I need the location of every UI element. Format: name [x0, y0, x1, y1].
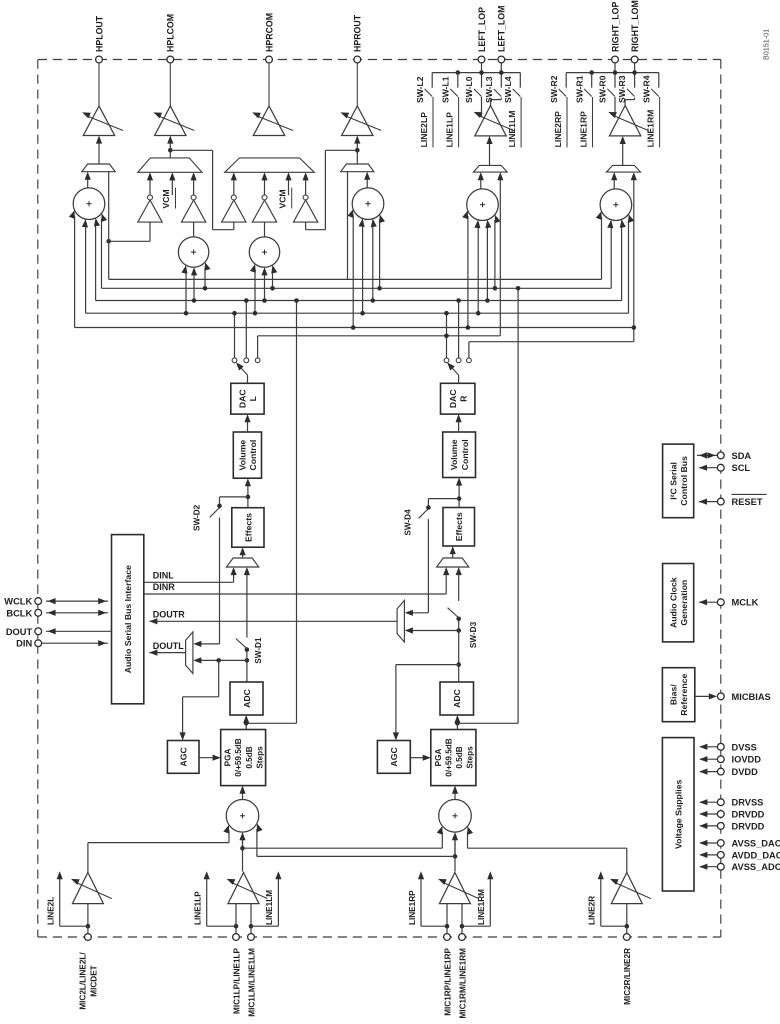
- wire HPLCOM output: [169, 63, 171, 106]
- op-amp HPLOUT driver: [83, 106, 114, 136]
- wire SW-D4 to DOUTR mux: [427, 519, 429, 613]
- switch SW-D1: [245, 647, 250, 652]
- net LINE1LM stub: [520, 97, 522, 147]
- pin DVDD: [717, 768, 724, 775]
- pin DVSS: [717, 743, 724, 750]
- wire MIC1R amp to mixer R (tap to mixer L): [454, 836, 456, 872]
- switch SW-R4: [651, 89, 659, 97]
- wire MIC1L amp to mixer L (tap to mixer R): [242, 836, 244, 872]
- net LINE1LP stub: [458, 97, 460, 147]
- selector DAC L output: [247, 375, 249, 383]
- pin LEFT_LOP: [481, 63, 483, 88]
- svg-text:DRVDD: DRVDD: [732, 810, 765, 820]
- wire Volume Control L to DAC L: [247, 419, 249, 432]
- svg-text:MCLK: MCLK: [732, 598, 759, 608]
- pin MCLK: [717, 599, 724, 606]
- block Bias/Reference: [662, 668, 694, 722]
- pin AVDD_DAC: [717, 852, 724, 859]
- wire PGA L to ADC L (tap to bus): [245, 720, 247, 729]
- svg-text:Control: Control: [248, 440, 258, 471]
- wire LEFT_LO mux bypass input (DAC_L): [499, 177, 501, 335]
- wire DAC L sel right to H6: [257, 336, 259, 358]
- pin LEFT_LOM: [500, 63, 502, 88]
- wire DOUT: [46, 630, 112, 632]
- pin SDA: [717, 452, 724, 459]
- summer HPROUT mixer: [352, 188, 384, 220]
- svg-text:DOUTR: DOUTR: [153, 610, 185, 620]
- svg-text:Reference: Reference: [679, 674, 689, 716]
- svg-text:AVSS_ADC: AVSS_ADC: [732, 862, 780, 872]
- pin RIGHT_LOM: [634, 63, 636, 88]
- svg-text:DRVSS: DRVSS: [732, 798, 764, 808]
- wire RIGHT_LO mixer inputs: [601, 217, 603, 280]
- wire BCLK: [46, 612, 108, 614]
- svg-text:SW-D1: SW-D1: [254, 637, 263, 664]
- op-amp HPLCOM driver: [155, 106, 186, 136]
- switch SW-R0: [607, 89, 615, 97]
- wire LEFT_LO mixer inputs: [494, 220, 496, 288]
- svg-text:DOUTL: DOUTL: [153, 641, 184, 651]
- svg-text:DVDD: DVDD: [732, 767, 759, 777]
- svg-text:Steps: Steps: [466, 746, 475, 769]
- pin DRVDD: [717, 811, 724, 818]
- block Audio Serial Bus Interface: [112, 535, 144, 704]
- svg-text:I²C Serial: I²C Serial: [668, 462, 678, 500]
- wire AGC L to PGA L: [199, 757, 215, 759]
- switch SW-R3: [627, 89, 635, 97]
- svg-text:MIC1LP/LINE1LP: MIC1LP/LINE1LP: [232, 947, 241, 1014]
- pin AVSS_ADC: [717, 863, 724, 870]
- svg-text:AVDD_DAC: AVDD_DAC: [732, 850, 780, 860]
- svg-text:0/+59.5dB: 0/+59.5dB: [444, 738, 453, 777]
- summer HPLCOM mixer: [178, 237, 208, 267]
- svg-text:SW-L0: SW-L0: [464, 76, 474, 103]
- svg-text:Voltage Supplies: Voltage Supplies: [674, 779, 684, 849]
- wire L mux to amp: [489, 141, 491, 165]
- wire mux to Effects L: [242, 553, 244, 559]
- svg-text:HPLCOM: HPLCOM: [166, 14, 176, 52]
- svg-text:MIC1RM/LINE1RM: MIC1RM/LINE1RM: [458, 948, 467, 1019]
- svg-text:LINE2L: LINE2L: [47, 897, 56, 925]
- svg-text:SDA: SDA: [732, 451, 752, 461]
- svg-text:R: R: [458, 395, 468, 402]
- svg-text:SW-L3: SW-L3: [484, 76, 494, 103]
- mux HPLCOM: [138, 158, 202, 172]
- node R rail taps: [589, 70, 594, 75]
- svg-text:SW-L1: SW-L1: [440, 76, 450, 103]
- svg-text:SW-L2: SW-L2: [415, 76, 425, 103]
- svg-text:ADC: ADC: [242, 688, 252, 708]
- svg-text:MICDET: MICDET: [90, 965, 99, 996]
- wire HPRCOM mixer inputs: [254, 270, 256, 314]
- svg-text:ADC: ADC: [452, 688, 462, 708]
- wire HPLOUT output: [98, 63, 100, 106]
- wire ADC R output to DOUTR mux: [458, 619, 460, 682]
- pin IOVDD: [717, 756, 724, 763]
- svg-text:AGC: AGC: [179, 747, 189, 767]
- switch SW-L1: [450, 89, 458, 97]
- wire DIN: [42, 642, 108, 644]
- wire R SW0 lower contact: [614, 97, 616, 117]
- svg-text:MIC1LM/LINE1LM: MIC1LM/LINE1LM: [247, 948, 256, 1017]
- svg-text:AVSS_DAC: AVSS_DAC: [732, 839, 780, 849]
- svg-text:BCLK: BCLK: [6, 608, 32, 618]
- wire DINL: [144, 581, 234, 583]
- pin MIC1RM/LINE1RM: [459, 934, 466, 941]
- block AGC L: [167, 741, 199, 774]
- svg-text:LINE1RM: LINE1RM: [477, 889, 486, 925]
- wire bus line H5: [75, 327, 634, 329]
- block PGA L: [221, 730, 266, 786]
- summer HPRCOM mixer: [249, 237, 279, 267]
- op-amp input amp at x=626.8: [611, 873, 642, 904]
- svg-text:Generation: Generation: [679, 580, 689, 626]
- wire R switch rail: [566, 72, 659, 74]
- summer R line mixer: [600, 189, 632, 221]
- net LINE2L bypass stub: [86, 924, 91, 929]
- pin DIN: [35, 640, 42, 647]
- svg-text:Control Bus: Control Bus: [679, 456, 689, 506]
- svg-text:0.5dB: 0.5dB: [455, 746, 464, 768]
- pin SCL: [717, 464, 724, 471]
- block PGA R: [431, 730, 476, 786]
- wire HPLOUT mux to amp: [98, 141, 100, 165]
- wire U-VCM1 output to mux: [149, 178, 151, 195]
- svg-text:MIC2R/LINE2R: MIC2R/LINE2R: [623, 948, 632, 1005]
- mux DAC L input: [226, 558, 258, 567]
- svg-text:LINE1RP: LINE1RP: [408, 890, 417, 925]
- wire mux to Effects R: [452, 551, 454, 558]
- wire bus line H1: [109, 278, 602, 280]
- wire HPLOUT mixer inputs: [101, 219, 103, 288]
- svg-text:LINE2LP: LINE2LP: [419, 112, 429, 148]
- wire HPRCOM summer to U-VCM4: [264, 222, 266, 237]
- svg-text:LINE2R: LINE2R: [588, 896, 597, 925]
- op-amp R line driver: [609, 106, 640, 136]
- svg-text:DAC: DAC: [238, 389, 248, 409]
- block DAC R: [441, 383, 475, 414]
- node H5 to DAC_R bypass: [632, 325, 637, 330]
- wire AGC R to PGA R: [410, 757, 425, 759]
- net LINE1RP bypass stub: [445, 924, 450, 929]
- wire HPROUT mixer inputs: [379, 220, 381, 288]
- net LINE1RM stub: [659, 97, 661, 147]
- wire Volume Control R to DAC R: [458, 419, 460, 432]
- net LINE2R bypass stub: [625, 924, 630, 929]
- wire HPLOUT mux left input from summer: [87, 177, 89, 188]
- svg-text:Audio Clock: Audio Clock: [668, 577, 678, 628]
- pin DRVSS: [717, 799, 724, 806]
- op-amp HPROUT driver: [342, 106, 373, 136]
- switch SW-D3: [456, 617, 461, 622]
- buffer U-VCM2: [181, 200, 205, 222]
- svg-text:Audio Serial Bus Interface: Audio Serial Bus Interface: [123, 565, 133, 673]
- wire DINR: [144, 593, 446, 595]
- wire L amp output to SW3: [490, 100, 492, 106]
- op-amp input amp at x=87.9: [72, 873, 103, 904]
- pin RESET: [717, 498, 724, 505]
- svg-text:LINE1LM: LINE1LM: [265, 890, 274, 925]
- summer input mixer L: [226, 800, 259, 833]
- switch SW-R1: [584, 89, 592, 97]
- pin HPROUT: [354, 56, 361, 63]
- wire L switch rail: [432, 72, 520, 74]
- wire R amp output to SW3: [624, 100, 626, 106]
- svg-text:Bias/: Bias/: [669, 684, 679, 705]
- svg-text:SW-R4: SW-R4: [641, 75, 651, 103]
- wire mixer R to PGA R: [454, 791, 456, 800]
- block ADC L: [230, 682, 263, 715]
- wire U-VCM5 output to mux: [305, 178, 307, 195]
- svg-text:0/+59.5dB: 0/+59.5dB: [234, 738, 243, 777]
- svg-text:LINE1LP: LINE1LP: [444, 112, 454, 148]
- svg-text:HPROUT: HPROUT: [353, 14, 363, 52]
- wire LINE2L amp to mixer L: [87, 843, 89, 875]
- svg-text:LINE2RP: LINE2RP: [553, 111, 563, 148]
- pin MIC1LP/LINE1LP: [233, 934, 240, 941]
- net LINE1RM bypass stub: [460, 924, 465, 929]
- node L rail taps: [456, 70, 461, 75]
- wire VCM feed right (HPROUT mux): [347, 172, 349, 280]
- net LINE1LM bypass stub: [249, 924, 254, 929]
- svg-text:Steps: Steps: [255, 746, 264, 769]
- svg-text:SW-D3: SW-D3: [469, 621, 478, 648]
- mux HPROUT: [341, 164, 374, 172]
- block DAC L: [231, 383, 264, 414]
- svg-text:SW-R1: SW-R1: [574, 75, 584, 103]
- pin AVSS_DAC: [717, 840, 724, 847]
- svg-text:RIGHT_LOM: RIGHT_LOM: [630, 0, 640, 52]
- svg-text:SW-D2: SW-D2: [193, 504, 202, 531]
- svg-text:MIC2L/LINE2L/: MIC2L/LINE2L/: [79, 952, 88, 1010]
- switch SW-L3: [494, 89, 502, 97]
- wire HPLCOM mixer inputs: [185, 271, 187, 313]
- wire DOUTR: [149, 620, 397, 622]
- svg-text:L: L: [248, 395, 258, 401]
- wire VCM feed left (HPLOUT mux): [108, 172, 110, 280]
- op-amp L line driver: [475, 106, 506, 136]
- net VCM stub: [171, 178, 173, 195]
- svg-text:B0151-01: B0151-01: [762, 29, 771, 60]
- svg-text:MIC1RP/LINE1RP: MIC1RP/LINE1RP: [443, 947, 452, 1015]
- block Audio Clock Generation: [663, 564, 694, 642]
- wire U-VCM4 output to mux: [264, 178, 266, 195]
- svg-text:RESET: RESET: [732, 497, 763, 507]
- pin HPLOUT: [96, 56, 103, 63]
- net VCM stub: [288, 178, 290, 195]
- wire Effects L to Volume Control L: [247, 484, 249, 508]
- buffer U-VCM3: [222, 200, 246, 222]
- wire ADC L output to DOUTL mux: [246, 650, 248, 682]
- svg-text:WCLK: WCLK: [4, 597, 32, 607]
- wire DOUTL: [149, 652, 186, 654]
- svg-text:Volume: Volume: [449, 439, 459, 470]
- svg-text:DVSS: DVSS: [732, 742, 757, 752]
- svg-text:SCL: SCL: [732, 463, 751, 473]
- svg-text:PGA: PGA: [434, 749, 443, 767]
- wire bus line H4: [86, 312, 629, 314]
- wire HPRCOM output: [268, 63, 270, 106]
- wire Effects R to Volume Control R: [458, 483, 460, 508]
- buffer U-VCM5: [293, 200, 317, 222]
- pin DRVDD: [717, 823, 724, 830]
- svg-text:DOUT: DOUT: [6, 627, 33, 637]
- op-amp HPRCOM driver: [253, 106, 284, 136]
- svg-text:HPRCOM: HPRCOM: [264, 13, 274, 52]
- wire HPLCOM mux to amp (tap to VCM follower net): [169, 141, 171, 158]
- buffer U-VCM4: [252, 200, 276, 222]
- block Effects R: [443, 508, 475, 547]
- mux L line out: [473, 165, 507, 172]
- mux DOUTR: [397, 600, 404, 642]
- wire HPROUT output: [356, 63, 358, 106]
- svg-text:LINE1LM: LINE1LM: [507, 111, 517, 148]
- selector DAC R output: [458, 375, 460, 383]
- switch SW-L4: [513, 89, 521, 97]
- svg-text:VCM: VCM: [277, 189, 287, 208]
- svg-text:RIGHT_LOP: RIGHT_LOP: [610, 2, 620, 52]
- block Volume Control R: [443, 432, 476, 478]
- svg-text:PGA: PGA: [224, 749, 233, 767]
- svg-text:Volume: Volume: [238, 440, 248, 471]
- svg-text:SW-R2: SW-R2: [549, 75, 559, 103]
- net LINE1RP stub: [592, 97, 594, 147]
- block Volume Control L: [233, 432, 261, 478]
- summer L line mixer: [467, 189, 499, 221]
- svg-text:LINE1LP: LINE1LP: [194, 891, 203, 925]
- switch SW-D4: [428, 498, 459, 500]
- svg-text:SW-L4: SW-L4: [503, 76, 513, 103]
- wire U-VCM2 output to mux: [193, 178, 195, 195]
- wire VCM rail to U-VCM1: [149, 222, 151, 241]
- switch SW-L0: [474, 89, 482, 97]
- summer HPLOUT mixer: [73, 188, 105, 220]
- svg-text:DAC: DAC: [448, 389, 458, 409]
- svg-text:LEFT_LOM: LEFT_LOM: [497, 6, 507, 52]
- svg-text:Effects: Effects: [243, 513, 253, 542]
- block I2C Serial Control Bus: [663, 444, 694, 518]
- mux HPLOUT: [82, 164, 115, 172]
- wire L SW0 lower contact: [481, 97, 483, 117]
- svg-text:SW-D4: SW-D4: [404, 509, 413, 536]
- net LINE2LP stub: [432, 97, 434, 147]
- pin RIGHT_LOP: [614, 63, 616, 88]
- svg-text:SW-R3: SW-R3: [617, 75, 627, 103]
- pin HPLCOM: [167, 56, 174, 63]
- svg-text:IOVDD: IOVDD: [732, 755, 762, 765]
- wire L mux left input from summer: [480, 177, 482, 188]
- switch SW-R2: [559, 89, 567, 97]
- pin WCLK: [35, 598, 42, 605]
- svg-text:LINE1RP: LINE1RP: [578, 111, 588, 148]
- wire AGC R sense: [456, 662, 461, 667]
- svg-text:DIN: DIN: [16, 639, 32, 649]
- pin MICBIAS: [717, 693, 724, 700]
- wire U-VCM3 input: [233, 222, 235, 230]
- pin MIC2R/LINE2R: [623, 934, 630, 941]
- pin MIC2L/LINE2L/: [85, 934, 92, 941]
- block Voltage Supplies: [662, 738, 694, 891]
- wire bus line H3: [96, 300, 622, 302]
- wire bus line H6 (DAC_L to line mux): [258, 335, 501, 337]
- svg-text:MICBIAS: MICBIAS: [732, 692, 771, 702]
- svg-text:DINR: DINR: [153, 582, 175, 592]
- wire AGC L sense: [218, 660, 220, 696]
- switch SW-L2: [425, 89, 433, 97]
- node VCM left: [106, 239, 111, 244]
- wire DAC R sel right to H7: [468, 342, 470, 358]
- svg-text:HPLOUT: HPLOUT: [94, 15, 104, 52]
- svg-text:DRVDD: DRVDD: [732, 821, 765, 831]
- wire bus line H7 (DAC_R to line mux): [469, 341, 634, 343]
- svg-text:DINL: DINL: [153, 571, 174, 581]
- wire mixer L to PGA L: [242, 791, 244, 800]
- pin MIC1RP/LINE1RP: [444, 934, 451, 941]
- buffer U-VCM1: [138, 200, 162, 222]
- wire DAC R sel mid to H3: [458, 301, 460, 358]
- wire HPROUT mux to amp (tap to VCM follower net): [356, 141, 358, 165]
- svg-text:VCM: VCM: [161, 189, 171, 208]
- svg-text:LEFT_LOP: LEFT_LOP: [477, 7, 487, 52]
- wire HPROUT mux right input from summer: [366, 177, 368, 188]
- mux DOUTL: [186, 632, 193, 674]
- op-amp input amp at x=243.5: [228, 873, 259, 904]
- svg-text:Effects: Effects: [454, 512, 464, 541]
- svg-text:Control: Control: [460, 439, 470, 470]
- pin MIC1LM/LINE1LM: [248, 934, 255, 941]
- wire SW-D2 to DOUTL mux: [219, 518, 221, 644]
- wire HPLCOM summer to U-VCM2: [193, 222, 195, 237]
- pin HPRCOM: [266, 56, 273, 63]
- wire U-VCM5 input: [305, 222, 307, 230]
- wire bus line H2: [102, 287, 612, 289]
- wire DAC L sel left to H4: [234, 313, 236, 358]
- svg-text:LINE1RM: LINE1RM: [645, 110, 655, 148]
- mux R line out: [607, 165, 641, 172]
- wire RIGHT_LO mux bypass input (DAC_R): [633, 177, 635, 341]
- wire R mux left input from summer: [613, 177, 615, 188]
- op-amp input amp at x=454.9: [439, 873, 470, 904]
- chip boundary (dashed): [38, 59, 721, 61]
- wire DAC R sel left to H4: [446, 313, 448, 358]
- switch SW-D2: [220, 496, 248, 498]
- net LINE1LP bypass stub: [234, 924, 239, 929]
- block ADC R: [440, 682, 474, 715]
- pin BCLK: [35, 609, 42, 616]
- wire DAC L sel mid to H3: [245, 301, 247, 358]
- summer input mixer R: [439, 800, 472, 833]
- wire R mux to amp: [622, 141, 624, 165]
- svg-text:0.5dB: 0.5dB: [245, 746, 254, 768]
- pin DOUT: [35, 628, 42, 635]
- wire MIC2R amp to mixer R: [626, 848, 628, 873]
- wire U-VCM3 output to mux: [233, 178, 235, 195]
- block AGC R: [377, 741, 410, 774]
- wire SW-D1 to DAC L mux: [246, 573, 248, 638]
- wire WCLK: [46, 600, 108, 602]
- mux HPRCOM: [225, 158, 315, 172]
- svg-text:AGC: AGC: [389, 747, 399, 767]
- wire PGA R to ADC R (tap to bus): [456, 720, 458, 729]
- wire SW-D3 to DAC R mux: [458, 573, 460, 602]
- mux DAC R input: [437, 558, 469, 567]
- block Effects L: [232, 508, 264, 548]
- net LINE2RP stub: [566, 97, 568, 147]
- svg-text:SW-R0: SW-R0: [598, 75, 608, 103]
